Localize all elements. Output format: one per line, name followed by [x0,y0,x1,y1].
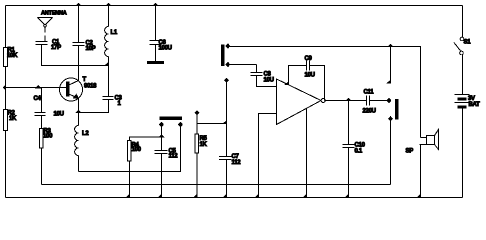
capacitor C11 220U [363,90,388,115]
capacitor C6 100U [150,6,172,62]
capacitor C7 111 [219,78,241,197]
switch S1 [454,37,471,55]
ground bar C6 [148,62,164,64]
resistor R1 [4,48,19,67]
inductor L2 [75,126,90,172]
node junction C5 x R4 [159,135,163,137]
svg-text:220U: 220U [363,109,376,115]
wire bottom border [6,197,463,199]
svg-text:10U: 10U [54,112,64,118]
node junction base wire [36,86,40,88]
wire J2 to C8 [230,64,257,66]
node junction output x C10 [346,98,350,100]
svg-text:112: 112 [169,154,179,160]
antenna [38,11,67,42]
pin arrow J3 top [387,99,391,103]
resistor R5 1K [194,111,227,198]
wire base [6,87,67,89]
capacitor C1 17P [36,40,62,52]
connector bar J3 speaker jack [396,100,399,120]
wire right column mid [462,55,464,95]
wire J3 bottom to rail [390,120,392,185]
wire C2 bottom / collector column [78,46,80,81]
resistor R2 [4,110,18,131]
capacitor C10 0.1 [343,101,366,198]
wire L2 to connector pin [79,127,181,172]
capacitor C2 10P [73,41,96,53]
pin arrow J1 right [179,123,183,127]
pin arrow J1 left [160,123,164,127]
capacitor C3 [79,66,123,113]
svg-text:S1: S1 [464,40,472,46]
battery BT1 3V [455,95,481,109]
node junction tank wire x L1 [105,63,109,66]
inductor L1 [105,6,118,66]
connector bar J2 [222,45,225,66]
pin arrow J2 bottom [226,63,230,67]
svg-text:ANTENNA: ANTENNA [41,11,67,17]
wire output [326,100,367,102]
svg-text:100: 100 [132,147,142,153]
wire IC ground pin [306,109,308,198]
svg-text:9018: 9018 [84,84,97,90]
wire input2 ground branch [259,114,277,198]
svg-text:17P: 17P [51,45,61,51]
wire ground rail [42,184,391,186]
speaker SP [406,130,439,198]
connector bar J1 [160,117,182,120]
svg-text:1K: 1K [9,116,17,122]
capacitor C9 10U feedback [286,56,325,101]
wire top rail [6,5,463,7]
wire C1 bottom lead [42,45,109,66]
wire left border [5,6,7,198]
svg-text:112: 112 [232,160,242,166]
wire C2 top lead [78,6,80,43]
capacitor C8 10U [251,65,277,87]
wire speaker feed [230,47,421,138]
transistor Q1 9018 [60,77,98,101]
svg-text:10U: 10U [305,73,315,79]
svg-text:100: 100 [43,134,53,140]
svg-text:C11: C11 [364,90,375,96]
svg-text:L1: L1 [111,30,118,36]
svg-text:10K: 10K [7,53,18,59]
pin arrow J2 top [226,44,230,48]
resistor R3 100 [40,129,54,185]
svg-text:100U: 100U [159,46,172,52]
pin arrow J3 bottom [389,117,393,121]
wire jack stub [388,44,392,46]
wire right column top [462,6,464,38]
capacitor C5 111 [155,127,179,198]
node junction emitter x C3 return [76,110,80,112]
svg-text:C9: C9 [305,56,313,62]
svg-text:BAT: BAT [469,102,481,108]
svg-text:10U: 10U [264,78,274,84]
svg-text:0.1: 0.1 [355,149,363,155]
svg-text:SP: SP [406,149,414,155]
svg-text:1K: 1K [200,142,208,148]
wire emitter column [78,99,80,126]
node junction C6 top [154,4,158,6]
node junction C2 top [77,4,81,6]
capacitor C4 10U [34,88,64,129]
svg-text:L2: L2 [82,131,89,137]
svg-text:10P: 10P [86,46,96,52]
node junction L1 top [107,4,111,6]
op-amp U1 [277,79,326,125]
wire right column bottom [462,108,464,198]
resistor R4 100 [126,137,161,198]
